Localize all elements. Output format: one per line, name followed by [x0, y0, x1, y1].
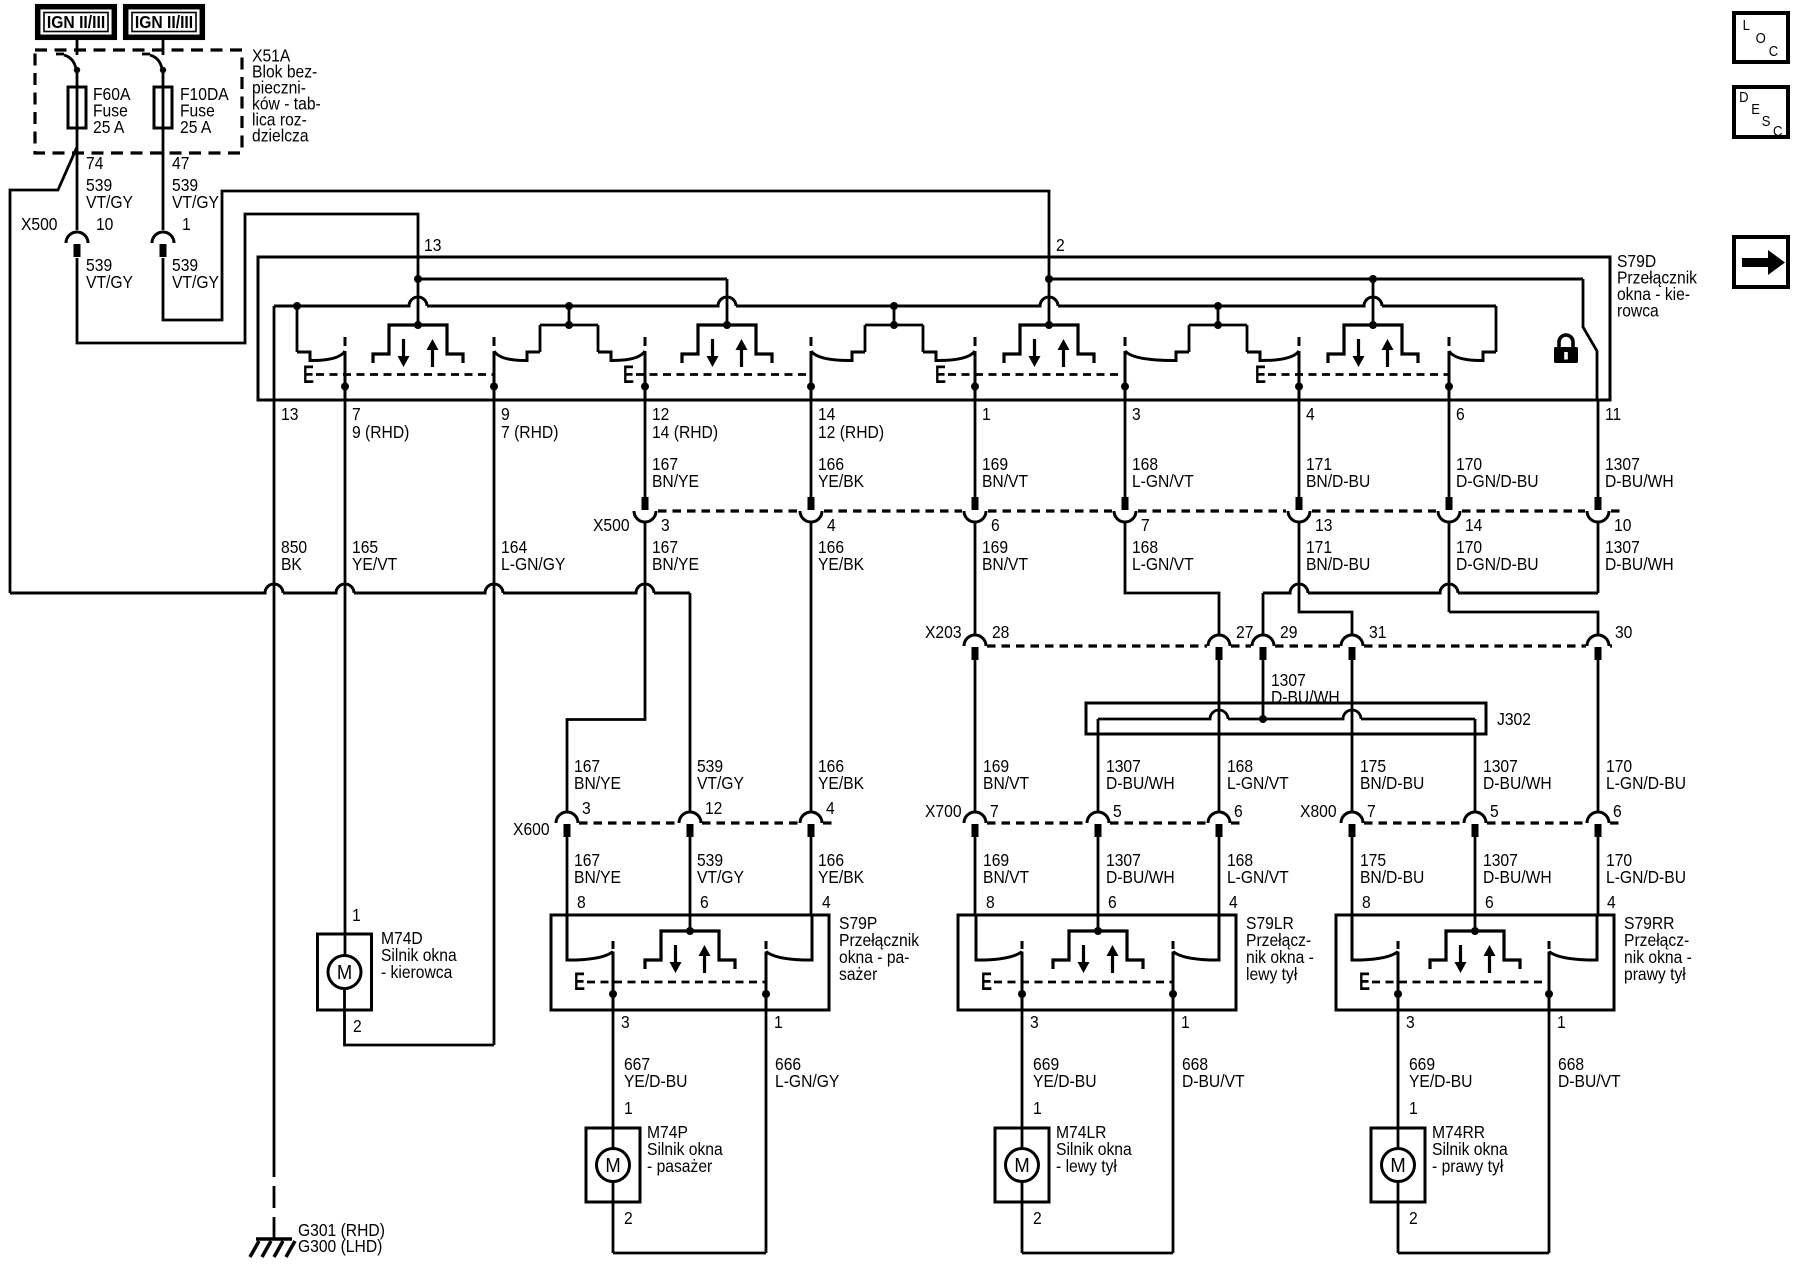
J302 internal bus — [1098, 710, 1475, 719]
X800 dashed line — [1364, 821, 1463, 824]
contact pin vertical x=1299 — [1295, 337, 1303, 400]
svg-text:VT/GY: VT/GY — [697, 867, 744, 887]
contact arc to pin 1 — [923, 351, 975, 361]
contact pair feed at 569 — [540, 306, 598, 352]
connector X500 pin 6 — [964, 497, 986, 522]
contact pin vertical x=1125 — [1121, 337, 1129, 400]
fuse block X51A dashed outline — [35, 50, 242, 153]
connector X500 pin 4 — [800, 497, 822, 522]
svg-text:YE/D-BU: YE/D-BU — [1409, 1071, 1472, 1091]
svg-text:M: M — [605, 1155, 620, 1177]
contact arc to pin 9 — [494, 351, 540, 361]
svg-text:M: M — [337, 962, 352, 984]
connector X500 from fuse F60A — [66, 232, 88, 257]
S79D internal feed bus segment 1 — [418, 278, 727, 281]
svg-text:13: 13 — [424, 235, 441, 255]
junction bus A / pin13 feed — [414, 275, 422, 283]
svg-text:YE/BK: YE/BK — [818, 471, 865, 491]
padlock icon — [1554, 335, 1578, 363]
svg-text:1: 1 — [182, 214, 191, 234]
svg-text:1: 1 — [982, 404, 991, 424]
svg-text:1: 1 — [774, 1012, 783, 1032]
svg-text:29: 29 — [1280, 622, 1297, 642]
fuse F60A 25A — [68, 87, 86, 128]
X203 dashed line — [987, 644, 1207, 647]
IGN box 1 — [38, 7, 115, 38]
wire: X500-10 output to S79D pin 13 (top) — [77, 214, 418, 343]
svg-text:D-BU/WH: D-BU/WH — [1483, 773, 1552, 793]
svg-text:IGN II/III: IGN II/III — [47, 12, 105, 32]
svg-text:3: 3 — [1132, 404, 1141, 424]
X600 dashed line — [702, 821, 799, 824]
contact arc to pin 14 — [811, 351, 865, 361]
rocker switch G1 (driver) — [373, 321, 463, 367]
S79LR right contact (pin 4 -> pin 1) — [1173, 915, 1219, 960]
contact arc to pin 4 — [1247, 351, 1299, 361]
svg-text:4: 4 — [1306, 404, 1315, 424]
svg-text:6: 6 — [1613, 801, 1622, 821]
wire S79D pin to X500 x=1598 — [1597, 400, 1600, 497]
svg-text:E: E — [1359, 968, 1370, 996]
wire: rocker feed x=1049 — [1048, 257, 1051, 325]
svg-text:D-GN/D-BU: D-GN/D-BU — [1456, 554, 1539, 574]
S79P rocker — [645, 927, 735, 973]
wire: 539 VT/GY bus to X600-12 — [10, 584, 690, 593]
svg-text:6: 6 — [1108, 892, 1117, 912]
svg-text:47: 47 — [172, 153, 189, 173]
wire 1307 jog left — [1263, 584, 1598, 593]
svg-text:VT/GY: VT/GY — [86, 272, 133, 292]
svg-text:YE/VT: YE/VT — [352, 554, 397, 574]
svg-text:D-BU/VT: D-BU/VT — [1182, 1071, 1245, 1091]
arrow navigation box — [1734, 237, 1788, 287]
svg-text:M: M — [1014, 1155, 1029, 1177]
LOC reference box — [1734, 13, 1788, 62]
svg-text:J302: J302 — [1497, 709, 1531, 729]
X500 dashed line — [988, 509, 1112, 512]
E dashed link — [316, 373, 494, 376]
switch S79LR outline — [958, 915, 1236, 1010]
svg-text:BK: BK — [281, 554, 303, 574]
connector X700 pin 6 — [1208, 812, 1230, 837]
wire S79D pin to X500 x=645 — [644, 400, 647, 497]
X500 dashed line — [1611, 509, 1622, 512]
rocker switch G4 (right rear) — [1328, 321, 1418, 367]
wire into switch x=1219 — [1218, 837, 1221, 915]
rocker switch G2 (passenger) — [682, 321, 772, 367]
svg-text:8: 8 — [1362, 892, 1371, 912]
svg-text:VT/GY: VT/GY — [86, 192, 133, 212]
svg-text:X500: X500 — [593, 515, 630, 535]
splice J302 box — [1086, 703, 1486, 734]
svg-text:VT/GY: VT/GY — [697, 773, 744, 793]
junction 1307 at J302 — [1259, 715, 1267, 723]
svg-text:25 A: 25 A — [93, 117, 125, 137]
connector X500 pin 14 — [1438, 497, 1460, 522]
svg-text:X700: X700 — [925, 801, 962, 821]
S79P right contact (pin 4 -> pin 1) — [766, 915, 812, 960]
svg-text:14 (RHD): 14 (RHD) — [652, 422, 718, 442]
wire: X500-1 output to S79D pin 2 (top) — [163, 191, 1049, 320]
connector X800 pin 6 — [1587, 812, 1609, 837]
wire into switch x=567 — [566, 837, 569, 915]
contact arc to pin 12 — [598, 351, 645, 361]
connector X203 pin 31 — [1341, 635, 1363, 660]
X203 dashed line — [1275, 644, 1340, 647]
svg-text:YE/BK: YE/BK — [818, 554, 865, 574]
svg-text:2: 2 — [353, 1016, 362, 1036]
svg-text:S: S — [1762, 112, 1771, 129]
connector X500 pin 10 — [1587, 497, 1609, 522]
wire 666 down — [765, 1010, 768, 1253]
svg-text:1: 1 — [1181, 1012, 1190, 1032]
svg-text:E: E — [574, 968, 585, 996]
wire S79D pin to X500 x=811 — [810, 400, 813, 497]
svg-text:12: 12 — [705, 798, 722, 818]
X700 dashed line — [1231, 821, 1244, 824]
S79D switch outline — [258, 257, 1610, 400]
contact pair feed at 894 — [865, 306, 923, 352]
svg-text:L-GN/VT: L-GN/VT — [1132, 554, 1194, 574]
svg-text:2: 2 — [1056, 235, 1065, 255]
svg-text:30: 30 — [1615, 622, 1632, 642]
wire: rocker feed x=727 — [726, 279, 729, 325]
svg-text:lewy tył: lewy tył — [1246, 964, 1298, 984]
X500 dashed line — [1138, 509, 1286, 512]
svg-text:E: E — [623, 361, 634, 389]
connector X500 from fuse F10DA — [152, 232, 174, 257]
wire 668 down — [1548, 1010, 1551, 1253]
X500 dashed line — [658, 509, 798, 512]
svg-text:7 (RHD): 7 (RHD) — [501, 422, 558, 442]
connector X203 pin 27 — [1208, 635, 1230, 660]
svg-text:- kierowca: - kierowca — [381, 962, 453, 982]
X500 dashed line — [1462, 509, 1585, 512]
svg-text:27: 27 — [1236, 622, 1253, 642]
wire 667 to motor — [612, 1010, 615, 1149]
wire into switch x=975 — [974, 837, 977, 915]
wire into switch x=1098 — [1097, 837, 1100, 915]
svg-text:13: 13 — [281, 404, 298, 424]
svg-text:6: 6 — [1234, 801, 1243, 821]
svg-text:L-GN/D-BU: L-GN/D-BU — [1606, 773, 1686, 793]
svg-text:dzielcza: dzielcza — [252, 125, 309, 145]
connector X203 pin 28 — [964, 635, 986, 660]
wire 170 D-GN/D-BU: X500-14 to X203-30 — [1449, 522, 1598, 634]
X800 dashed line — [1487, 821, 1586, 824]
svg-text:14: 14 — [1465, 515, 1482, 535]
svg-text:11: 11 — [1605, 404, 1621, 424]
S79LR rocker — [1053, 927, 1143, 973]
connector X600 pin 4 — [800, 812, 822, 837]
svg-text:rowca: rowca — [1617, 300, 1659, 320]
wire 170 L-GN/D-BU to X800-6 — [1597, 660, 1600, 812]
svg-text:M: M — [1390, 1155, 1405, 1177]
connector X800 pin 5 — [1464, 812, 1486, 837]
svg-text:L-GN/VT: L-GN/VT — [1227, 867, 1289, 887]
svg-text:sażer: sażer — [839, 964, 878, 984]
X500 dashed line — [1312, 509, 1436, 512]
svg-text:D-BU/WH: D-BU/WH — [1483, 867, 1552, 887]
svg-text:4: 4 — [1229, 892, 1238, 912]
svg-text:L-GN/D-BU: L-GN/D-BU — [1606, 867, 1686, 887]
wire: S79D pin11 internal (chamfered) — [1583, 279, 1597, 400]
svg-text:D-BU/VT: D-BU/VT — [1558, 1071, 1621, 1091]
svg-text:3: 3 — [1030, 1012, 1039, 1032]
contact arc to pin 6 — [1449, 351, 1496, 361]
svg-text:D-BU/WH: D-BU/WH — [1106, 867, 1175, 887]
svg-text:BN/VT: BN/VT — [983, 867, 1029, 887]
X600 dashed line — [579, 821, 678, 824]
svg-text:X600: X600 — [513, 819, 550, 839]
wire: branch from fuse F60A down left edge (539 VT/GY feed) — [10, 147, 77, 593]
wire 167 BN/YE: X500-3 to X600-3 — [567, 522, 645, 812]
svg-text:4: 4 — [822, 892, 831, 912]
wire into switch x=1352 — [1351, 837, 1354, 915]
X800 dashed line — [1610, 821, 1623, 824]
IGN box 2 — [126, 7, 203, 38]
svg-text:L-GN/GY: L-GN/GY — [501, 554, 565, 574]
svg-text:2: 2 — [1409, 1208, 1418, 1228]
connector X600 pin 3 — [556, 812, 578, 837]
svg-text:6: 6 — [991, 515, 1000, 535]
svg-text:BN/YE: BN/YE — [574, 773, 621, 793]
wire 169 BN/VT: X500-6 to X203-28 — [974, 522, 977, 634]
svg-text:D-BU/WH: D-BU/WH — [1106, 773, 1175, 793]
junction contact bus x=297 — [293, 302, 301, 310]
wire into switch x=811 — [810, 837, 813, 915]
wire below fuse F60A — [76, 128, 79, 230]
rocker switch G3 (left rear) — [1004, 321, 1094, 367]
svg-text:- lewy tył: - lewy tył — [1056, 1156, 1117, 1176]
wire out of M74P — [612, 1182, 615, 1254]
svg-text:6: 6 — [1456, 404, 1465, 424]
svg-text:E: E — [981, 968, 992, 996]
connector X500 pin 13 — [1288, 497, 1310, 522]
wire 1307 from J302 to X700-5 — [1097, 719, 1100, 812]
S79RR right contact (pin 4 -> pin 1) — [1549, 915, 1597, 960]
svg-text:BN/D-BU: BN/D-BU — [1360, 867, 1424, 887]
svg-text:E: E — [1255, 361, 1266, 389]
connector X203 pin 29 — [1252, 635, 1274, 660]
wire S79D pin to X500 x=1449 — [1448, 400, 1451, 497]
svg-text:BN/D-BU: BN/D-BU — [1360, 773, 1424, 793]
svg-text:prawy tył: prawy tył — [1624, 964, 1686, 984]
svg-text:12 (RHD): 12 (RHD) — [818, 422, 884, 442]
svg-text:O: O — [1756, 29, 1766, 46]
motor M74D — [318, 934, 372, 1010]
svg-text:G300 (LHD): G300 (LHD) — [298, 1236, 382, 1256]
svg-text:YE/D-BU: YE/D-BU — [624, 1071, 687, 1091]
svg-text:3: 3 — [582, 798, 591, 818]
wire link motor return — [613, 1252, 766, 1255]
contact arc to pin 7 — [297, 351, 345, 361]
X600 dashed line — [823, 821, 836, 824]
svg-text:4: 4 — [826, 798, 835, 818]
wire S79D pin to X500 x=1299 — [1298, 400, 1301, 497]
connector X500 pin 3 — [634, 497, 656, 522]
contact pin vertical x=1449 — [1445, 337, 1453, 400]
wire 1307 D-BU/WH into J302 — [1262, 660, 1265, 719]
contact pin vertical x=494 — [490, 337, 498, 400]
contact arc to pin 3 — [1125, 351, 1189, 361]
switch S79P outline — [551, 915, 829, 1010]
S79LR left contact (pin 8 -> pin 3) — [976, 915, 1022, 960]
S79RR E dashed link — [1372, 981, 1549, 984]
wire link motor return — [1022, 1252, 1173, 1255]
svg-text:E: E — [303, 361, 314, 389]
X500 dashed line — [824, 509, 962, 512]
wire 171 BN/D-BU: X500-13 to X203-31 — [1299, 522, 1352, 634]
wire 850 BK dashed to ground — [273, 1186, 276, 1238]
wire into switch x=690 — [689, 837, 692, 915]
wire 1307 D-BU/WH: X500-10 to X203-29 — [1597, 522, 1600, 593]
svg-text:1: 1 — [624, 1098, 633, 1118]
X203 dashed line — [1610, 644, 1612, 647]
svg-text:E: E — [935, 361, 946, 389]
X700 dashed line — [987, 821, 1086, 824]
DESC reference box — [1734, 87, 1788, 139]
wire 166 YE/BK: X500-4 to X600-4 — [810, 522, 813, 812]
wire S79D pin to X500 x=975 — [974, 400, 977, 497]
svg-text:3: 3 — [661, 515, 670, 535]
svg-text:4: 4 — [1607, 892, 1616, 912]
S79LR rocker feed — [1097, 915, 1100, 931]
wire: rocker feed x=418 — [417, 257, 420, 325]
wire out of M74RR — [1397, 1182, 1400, 1254]
wire link motor return — [1398, 1252, 1549, 1255]
wire into switch x=1475 — [1474, 837, 1477, 915]
svg-text:7: 7 — [1141, 515, 1150, 535]
svg-text:YE/BK: YE/BK — [818, 773, 865, 793]
svg-text:1: 1 — [352, 905, 361, 925]
connector X203 pin 30 — [1587, 635, 1609, 660]
connector X700 pin 7 — [964, 812, 986, 837]
svg-text:3: 3 — [621, 1012, 630, 1032]
svg-text:3: 3 — [1406, 1012, 1415, 1032]
svg-text:BN/YE: BN/YE — [574, 867, 621, 887]
connector X800 pin 7 — [1341, 812, 1363, 837]
motor M74RR — [1371, 1128, 1425, 1202]
svg-text:2: 2 — [1033, 1208, 1042, 1228]
junction bus A / rocker 4 drop — [1369, 275, 1377, 283]
svg-text:C: C — [1769, 42, 1778, 59]
svg-text:25 A: 25 A — [180, 117, 212, 137]
svg-text:28: 28 — [992, 622, 1009, 642]
wire S79D pin to X500 x=1125 — [1124, 400, 1127, 497]
svg-text:9 (RHD): 9 (RHD) — [352, 422, 409, 442]
svg-text:10: 10 — [96, 214, 113, 234]
contact arm: bus to pin 7 — [296, 306, 299, 352]
wire 850 BK down to ground — [273, 400, 276, 1177]
svg-text:6: 6 — [1485, 892, 1494, 912]
fuse switch above F60A — [56, 38, 80, 87]
svg-text:4: 4 — [827, 515, 836, 535]
svg-text:L-GN/VT: L-GN/VT — [1132, 471, 1194, 491]
svg-text:8: 8 — [577, 892, 586, 912]
svg-text:BN/VT: BN/VT — [983, 773, 1029, 793]
svg-text:IGN II/III: IGN II/III — [135, 12, 193, 32]
svg-text:7: 7 — [990, 801, 999, 821]
wire 169 BN/VT to X700-7 — [974, 660, 977, 812]
connector X600 pin 12 — [679, 812, 701, 837]
wire 668 down — [1172, 1010, 1175, 1253]
wire 164 L-GN/GY down — [493, 400, 496, 1045]
svg-text:7: 7 — [1367, 801, 1376, 821]
junction contact bus x=569 — [565, 302, 573, 310]
svg-text:E: E — [1751, 100, 1760, 117]
E dashed link — [948, 373, 1125, 376]
svg-text:1: 1 — [1033, 1098, 1042, 1118]
wire 669 to motor — [1397, 1010, 1400, 1149]
S79P rocker feed — [689, 915, 692, 931]
fuse F10DA 25A — [154, 87, 172, 128]
svg-text:1: 1 — [1409, 1098, 1418, 1118]
svg-text:1: 1 — [1557, 1012, 1566, 1032]
wire 1307 drop to X203-29 — [1262, 593, 1265, 634]
svg-text:74: 74 — [86, 153, 103, 173]
svg-text:8: 8 — [986, 892, 995, 912]
E dashed link — [636, 373, 811, 376]
switch S79RR outline — [1336, 915, 1614, 1010]
svg-text:5: 5 — [1113, 801, 1122, 821]
contact pin vertical x=645 — [641, 337, 649, 400]
fuse switch above F10DA — [142, 38, 166, 87]
svg-text:BN/D-BU: BN/D-BU — [1306, 554, 1370, 574]
wire: rocker feed x=1373 — [1372, 279, 1375, 325]
svg-text:- pasażer: - pasażer — [647, 1156, 713, 1176]
wire M74D return to S79D pin 9 — [345, 989, 495, 1046]
wire below fuse F10DA — [162, 128, 165, 230]
S79D internal feed bus segment 2 — [1049, 278, 1583, 281]
svg-text:10: 10 — [1614, 515, 1631, 535]
svg-text:BN/YE: BN/YE — [652, 554, 699, 574]
wire 175 BN/D-BU to X800-7 (through J302) — [1351, 660, 1354, 812]
motor M74LR — [995, 1128, 1049, 1202]
svg-text:X500: X500 — [21, 214, 58, 234]
contact arm: bus end to pin 6 — [1495, 306, 1498, 352]
X203 dashed line — [1231, 644, 1251, 647]
X700 dashed line — [1110, 821, 1207, 824]
ground G301/G300 — [250, 1239, 295, 1257]
svg-text:31: 31 — [1369, 622, 1386, 642]
junction contact bus x=1218 — [1214, 302, 1222, 310]
connector X500 pin 7 — [1114, 497, 1136, 522]
wire 1307 from J302 to X800-5 — [1474, 719, 1477, 812]
S79RR rocker — [1430, 927, 1520, 973]
S79RR left contact (pin 8 -> pin 3) — [1352, 915, 1398, 960]
connector X700 pin 5 — [1087, 812, 1109, 837]
contact pin vertical x=811 — [807, 337, 815, 400]
S79RR rocker feed — [1474, 915, 1477, 931]
wire 168 L-GN/VT to X700-6 (through J302) — [1218, 660, 1221, 812]
svg-text:2: 2 — [624, 1208, 633, 1228]
svg-text:D-BU/WH: D-BU/WH — [1605, 471, 1674, 491]
svg-text:BN/YE: BN/YE — [652, 471, 699, 491]
wire 168 L-GN/VT: X500-7 to X203-27 — [1125, 522, 1219, 634]
contact pair feed at 1218 — [1189, 306, 1247, 352]
svg-text:C: C — [1773, 122, 1782, 139]
svg-text:YE/D-BU: YE/D-BU — [1033, 1071, 1096, 1091]
contact pin vertical x=975 — [971, 337, 979, 400]
junction contact bus x=894 — [890, 302, 898, 310]
svg-text:X203: X203 — [925, 622, 962, 642]
S79P E dashed link — [587, 981, 766, 984]
svg-text:VT/GY: VT/GY — [172, 192, 219, 212]
svg-text:L: L — [1743, 16, 1750, 33]
svg-text:BN/VT: BN/VT — [982, 471, 1028, 491]
S79LR E dashed link — [994, 981, 1173, 984]
